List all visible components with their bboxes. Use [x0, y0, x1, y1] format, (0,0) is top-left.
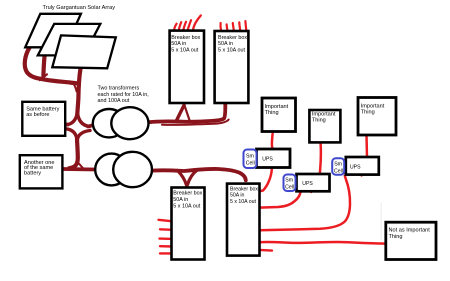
svg-text:as before: as before: [26, 112, 49, 118]
svg-text:Breaker box: Breaker box: [173, 191, 202, 197]
svg-text:50A in: 50A in: [171, 41, 186, 47]
svg-text:UPS: UPS: [350, 164, 361, 170]
svg-text:50A in: 50A in: [230, 193, 245, 199]
svg-text:Thing: Thing: [265, 110, 279, 116]
svg-text:Not as Important: Not as Important: [389, 227, 431, 233]
svg-text:battery: battery: [24, 170, 41, 176]
svg-text:UPS: UPS: [262, 156, 273, 162]
svg-text:Sm: Sm: [334, 162, 342, 168]
svg-text:5 x 10A out: 5 x 10A out: [173, 203, 200, 209]
svg-text:Sm: Sm: [246, 153, 254, 159]
svg-text:and 100A out: and 100A out: [98, 98, 130, 104]
svg-text:Breaker box: Breaker box: [218, 35, 247, 41]
svg-text:50A in: 50A in: [173, 197, 188, 203]
svg-text:Thing: Thing: [312, 117, 326, 123]
svg-text:Thing: Thing: [389, 234, 403, 240]
svg-text:Cell: Cell: [334, 169, 343, 175]
svg-text:Two transformers: Two transformers: [98, 86, 140, 92]
svg-text:each rated for 10A in,: each rated for 10A in,: [98, 92, 150, 98]
svg-text:Breaker box: Breaker box: [230, 186, 258, 192]
svg-text:5 x 10A out: 5 x 10A out: [218, 48, 245, 54]
svg-text:5 x 10A out: 5 x 10A out: [171, 48, 198, 54]
svg-text:UPS: UPS: [302, 181, 313, 187]
svg-text:50A in: 50A in: [218, 41, 233, 47]
svg-text:Cell: Cell: [246, 160, 255, 166]
svg-text:5 x 10A out: 5 x 10A out: [230, 199, 257, 205]
svg-text:Sm: Sm: [285, 178, 293, 184]
svg-text:Breaker box: Breaker box: [171, 35, 200, 41]
svg-text:Thing: Thing: [361, 109, 375, 115]
svg-text:Cell: Cell: [285, 185, 294, 191]
svg-text:Truly Gargantuan Solar Array: Truly Gargantuan Solar Array: [43, 5, 116, 11]
